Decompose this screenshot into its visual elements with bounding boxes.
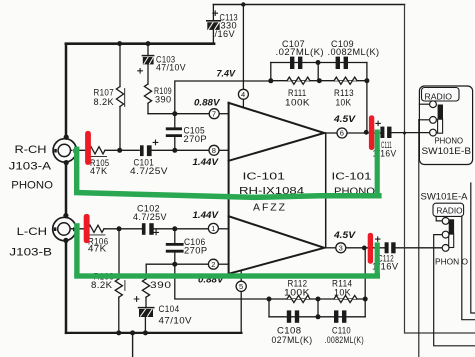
wire switch B pole column (418, 120, 420, 357)
svg-text:5: 5 (239, 282, 243, 291)
resistor R108 (115, 229, 125, 333)
svg-text:C108: C108 (277, 326, 302, 336)
svg-text:4.7/25V: 4.7/25V (130, 166, 168, 176)
wire pin4 supply drop (242, 5, 244, 90)
node junction output L (362, 246, 367, 251)
pin 4 (238, 89, 248, 107)
svg-text:.027ML(K): .027ML(K) (276, 47, 325, 57)
svg-text:027ML(K): 027ML(K) (272, 335, 313, 345)
svg-text:SW101E-A: SW101E-A (421, 191, 469, 202)
svg-text:8.2K: 8.2K (91, 280, 113, 290)
svg-text:4.7/25V: 4.7/25V (133, 212, 167, 222)
svg-text:47/10V: 47/10V (156, 63, 186, 73)
node junction fb upper right (364, 78, 369, 83)
svg-text:1.44V: 1.44V (193, 210, 220, 220)
node junction R108 ground (116, 330, 121, 335)
node junction small on B+ column (403, 132, 406, 135)
wire C112 to switch (396, 247, 443, 249)
switch SW101E-A (433, 183, 475, 346)
node junction pin2 (172, 262, 177, 267)
svg-text:R-CH: R-CH (15, 144, 47, 156)
wire pin7 row (148, 113, 209, 115)
pin 7 (209, 109, 228, 119)
svg-text:IC-101: IC-101 (243, 171, 286, 182)
marker red bar input R (85, 131, 91, 165)
wire highlight green path R-CH arm (74, 147, 79, 194)
node junction C104 ground (143, 330, 148, 335)
node junction fb upper left (268, 78, 273, 83)
svg-text:47K: 47K (88, 244, 107, 254)
capacitor C101 (140, 140, 158, 156)
svg-text:L-CH: L-CH (17, 226, 47, 238)
capacitor C110 (334, 310, 346, 322)
svg-text:100K: 100K (284, 287, 310, 297)
wire lower left link (268, 299, 270, 317)
resistor R106 (88, 225, 105, 235)
svg-text:C104: C104 (159, 304, 180, 314)
svg-text:0.88V: 0.88V (194, 98, 221, 108)
wire R106 to C102 (104, 228, 142, 230)
svg-text:4.5V: 4.5V (333, 114, 356, 124)
wire upper feedback column (366, 63, 368, 133)
svg-text:R107: R107 (94, 87, 115, 97)
pin 6 (324, 128, 380, 138)
node junction ground stub (130, 330, 135, 335)
wire B+ right column (405, 5, 475, 334)
marker red bar input L (84, 214, 90, 243)
node junction C103 top (146, 41, 151, 46)
resistor R111 (287, 77, 310, 84)
resistor R112 (287, 295, 310, 302)
node junction fb lower right (363, 297, 368, 302)
wire highlight green arm output L (375, 242, 380, 276)
pin 8 (209, 145, 229, 155)
node junction R107 top (117, 41, 122, 46)
svg-text:270P: 270P (184, 134, 208, 144)
capacitor C112 (376, 237, 396, 253)
marker red bar output L (368, 233, 373, 264)
node junction pin8 (172, 148, 177, 153)
svg-text:SW101E-B: SW101E-B (422, 146, 472, 157)
wire R-CH input row (72, 149, 89, 151)
svg-text:AFZZ: AFZZ (253, 202, 287, 214)
connector J103-B (53, 213, 76, 243)
wire lower cap row (269, 316, 365, 318)
svg-text:J103-A: J103-A (9, 161, 52, 173)
wire R105 to C101 (105, 149, 139, 151)
svg-text:8.2K: 8.2K (94, 97, 115, 107)
IC op-amp U1 outline IC-101 (229, 103, 326, 274)
node junction output R (364, 130, 369, 135)
svg-text:R113: R113 (334, 88, 354, 98)
svg-text:1: 1 (211, 224, 215, 233)
wire highlight green band lower (74, 273, 380, 278)
svg-text:10K: 10K (336, 98, 352, 108)
wire L-CH input row (72, 228, 88, 230)
svg-text:RADIO: RADIO (425, 93, 453, 102)
svg-text:RADIO: RADIO (437, 206, 463, 215)
svg-text:390: 390 (150, 280, 172, 290)
resistor R113 (334, 77, 357, 84)
svg-text:100K: 100K (285, 98, 310, 108)
svg-text:390: 390 (155, 95, 172, 105)
wire top supply bus (213, 4, 404, 6)
node junction fb upper mid res (317, 78, 322, 83)
capacitor C111 (376, 121, 392, 138)
svg-text:PHONO: PHONO (11, 179, 53, 191)
pin 2 (208, 259, 228, 269)
node junction pin1 (172, 226, 177, 231)
svg-text:C110: C110 (332, 326, 351, 336)
svg-text:IC-101: IC-101 (332, 171, 373, 182)
wire lower mid link (317, 299, 319, 317)
wire feedback link upper (175, 81, 271, 114)
node junction fb lower mid cap (316, 314, 321, 319)
svg-text:PHONO: PHONO (435, 137, 464, 146)
wire highlight green arm output R (375, 130, 380, 195)
capacitor C102 (142, 223, 159, 235)
svg-text:8: 8 (212, 146, 216, 155)
svg-text:1.44V: 1.44V (193, 157, 220, 167)
svg-text:4: 4 (241, 90, 245, 99)
pin 5 (236, 271, 246, 333)
capacitor C103 (138, 44, 154, 84)
svg-text:7.4V: 7.4V (217, 69, 236, 79)
svg-text:/16V: /16V (215, 29, 236, 39)
svg-text:J103-B: J103-B (9, 247, 52, 259)
marker red bar output R (369, 115, 374, 150)
capacitor C109 (336, 57, 348, 69)
wire C102 to pin1 (154, 228, 209, 230)
svg-text:.0082ML(K): .0082ML(K) (328, 47, 380, 57)
wire pin2 row (146, 263, 208, 265)
wire feedback link lower (175, 264, 365, 299)
svg-text:4.5V: 4.5V (333, 230, 356, 240)
resistor R105 (89, 147, 107, 157)
capacitor C108 (287, 310, 299, 322)
wire lower feedback column (364, 248, 366, 317)
switch SW101E-B (419, 86, 472, 165)
svg-text:7: 7 (212, 109, 216, 118)
connector J103-A (53, 135, 76, 166)
node junction fb upper mid cap (316, 60, 321, 65)
capacitor C106 (167, 229, 182, 264)
pin 1 (208, 223, 228, 233)
svg-text:3: 3 (339, 244, 343, 253)
wire upper res row (271, 80, 367, 82)
svg-text:270P: 270P (184, 246, 208, 256)
wire upper left link (270, 63, 272, 81)
svg-text:PHON O: PHON O (435, 257, 468, 266)
node junction input L (117, 226, 122, 231)
svg-text:2: 2 (211, 260, 215, 269)
wire highlight green arm L-CH (74, 223, 79, 275)
node junction input R (117, 148, 122, 153)
wire upper cap row (271, 62, 367, 64)
capacitor C105 (167, 114, 180, 151)
wire C111 to switch (392, 132, 430, 134)
wire highlight green band upper (74, 190, 382, 200)
svg-text:6: 6 (340, 129, 344, 138)
capacitor C107 (290, 57, 302, 69)
resistor R110 (142, 264, 149, 307)
pin 3 (324, 243, 384, 253)
capacitor C113 (207, 5, 220, 44)
svg-text:47K: 47K (90, 166, 108, 176)
node junction fb lower left (267, 297, 272, 302)
resistor R114 (334, 295, 357, 302)
wire upper mid link (317, 63, 319, 81)
wire bottom ground rail (66, 332, 242, 334)
node junction top (241, 2, 245, 6)
svg-text:R111: R111 (288, 88, 307, 98)
resistor R109 (144, 84, 151, 114)
svg-text:10K: 10K (334, 287, 351, 297)
capacitor C104 (134, 297, 154, 333)
svg-text:.0082ML(K): .0082ML(K) (325, 335, 365, 345)
wire supply rail left (66, 42, 214, 45)
node junction pin7 (172, 111, 177, 116)
svg-text:47/10V: 47/10V (159, 316, 193, 326)
wire C101 to pin8 (152, 149, 210, 151)
node junction fb lower mid res (316, 297, 321, 302)
wire left ground bus (65, 44, 68, 333)
wire switch B pole link (419, 119, 430, 121)
resistor R107 (116, 44, 124, 151)
wire ground stub down (132, 333, 134, 357)
